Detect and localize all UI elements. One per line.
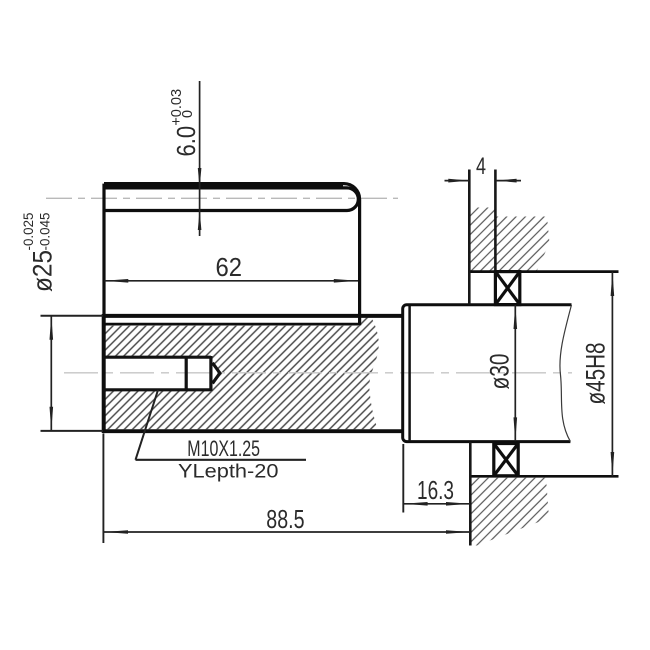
svg-text:4: 4 — [476, 153, 486, 180]
dimension Ø45H8 — [611, 272, 613, 477]
node crankcase bore lines Ø45 — [469, 270, 618, 273]
dimension Ø25 -0.025/-0.045 — [41, 316, 104, 431]
node holeWhite: tapped hole white area — [102, 357, 211, 389]
svg-text:-0.025: -0.025 — [21, 213, 36, 251]
wire: keyway slot centerline — [46, 197, 398, 199]
svg-text:0: 0 — [179, 110, 196, 118]
node shaft30: Ø30 section outline — [403, 305, 572, 442]
node wall face lines — [468, 170, 471, 305]
svg-text:ø25: ø25 — [28, 250, 58, 292]
svg-text:6.0: 6.0 — [171, 126, 201, 157]
svg-text:+0.03: +0.03 — [168, 89, 185, 126]
dimension Ø30 — [514, 305, 516, 441]
dimension 4 — [445, 180, 470, 182]
node hatchA: main shaft section hatch — [106, 318, 379, 430]
dimension 62 — [104, 280, 358, 282]
wire: main shaft centerline — [64, 372, 572, 374]
node wall hatch top — [469, 208, 495, 271]
dimension 88.5 — [102, 434, 104, 544]
svg-text:YLepth-20: YLepth-20 — [178, 461, 279, 482]
node wall hatch bottom — [470, 478, 549, 546]
wire: break squiggle right end of Ø30 — [560, 305, 572, 442]
label M10X1.25 leader — [136, 390, 159, 460]
node keyseat floor line — [104, 323, 358, 326]
svg-text:ø30: ø30 — [485, 354, 515, 390]
svg-text:-0.045: -0.045 — [38, 213, 53, 251]
node chamfer line — [408, 306, 411, 440]
dimension 16.3 — [402, 444, 404, 513]
component bearing bottom — [494, 444, 518, 476]
component hole M10X1.25 — [102, 356, 220, 391]
node keywayView: shaft plan view outline with slot — [104, 182, 343, 189]
node shaft25: front view Ø25 section — [103, 314, 403, 318]
svg-text:ø45H8: ø45H8 — [581, 343, 611, 405]
svg-text:62: 62 — [216, 252, 243, 282]
dimension 6.0 +0.03/0 — [199, 81, 201, 236]
svg-text:88.5: 88.5 — [266, 504, 304, 534]
svg-text:M10X1.25: M10X1.25 — [187, 436, 260, 461]
svg-text:16.3: 16.3 — [417, 475, 454, 505]
component bearing top — [495, 272, 519, 305]
